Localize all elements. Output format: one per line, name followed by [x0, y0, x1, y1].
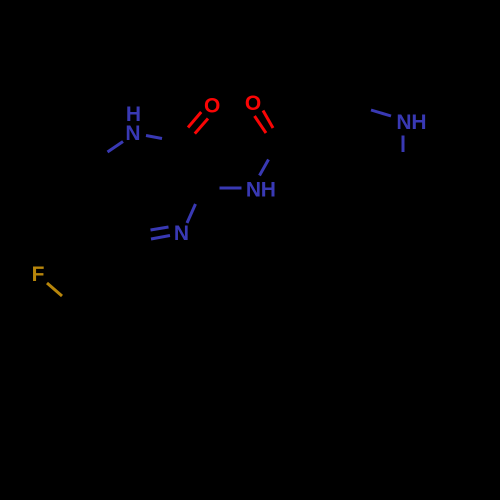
wire bond C8=O2 main half: [255, 116, 267, 133]
svg-text:N: N: [396, 111, 411, 134]
wire bond N3-Ca half: [371, 110, 391, 116]
wire bond N3-Cb half: [402, 136, 405, 153]
wire bond N4=C5 main half: [151, 236, 170, 240]
svg-text:N: N: [125, 122, 140, 145]
svg-text:F: F: [32, 263, 45, 286]
wire bond C8=O2 inner half: [263, 111, 273, 129]
atom N2 (amide N-H label): [246, 179, 276, 202]
wire bond C2=O1 main half: [195, 119, 208, 134]
wire bond N4=C5 inner half: [151, 227, 169, 230]
svg-text:H: H: [261, 179, 276, 202]
wire bond C2=O1 inner half: [188, 112, 201, 128]
svg-text:N: N: [246, 179, 261, 202]
wire bond N4-C3 half: [187, 204, 196, 223]
svg-text:N: N: [174, 222, 189, 245]
svg-text:O: O: [204, 95, 220, 118]
atom N1 (diazepine N-H label, H above N): [125, 103, 141, 145]
svg-text:O: O: [245, 92, 261, 115]
wire bond N1-C2 half: [146, 136, 162, 139]
svg-text:H: H: [411, 111, 426, 134]
wire bond N2-C3 half: [220, 187, 242, 190]
wire bond F1-C half: [47, 283, 62, 296]
wire bond N2-C8 half: [260, 160, 269, 176]
atom N3 (pyrrolidine N-H label): [396, 111, 426, 134]
wire bond N1-C7 half: [108, 142, 124, 153]
